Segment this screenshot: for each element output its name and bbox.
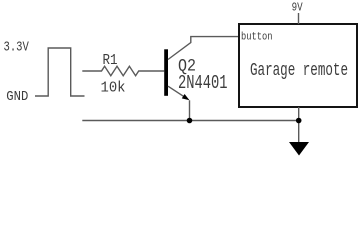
svg-text:R1: R1	[103, 52, 118, 69]
wire 9V stub to box top	[298, 13, 300, 24]
svg-text:GND: GND	[6, 89, 28, 105]
svg-text:10k: 10k	[101, 80, 126, 97]
svg-text:Garage remote: Garage remote	[250, 60, 348, 81]
svg-text:2N4401: 2N4401	[178, 72, 228, 94]
svg-text:button: button	[241, 31, 273, 43]
box Garage remote	[239, 24, 357, 107]
junction dot emitter-rail	[187, 118, 193, 124]
transistor Q2 emitter with arrow	[168, 86, 184, 96]
junction dot rail-ground	[296, 118, 302, 124]
transistor Q2 base bar	[164, 49, 168, 96]
ground symbol	[289, 142, 309, 156]
wire collector to button pin	[168, 37, 239, 60]
wire base with resistor R1 zigzag	[82, 66, 164, 75]
wire pulse waveform input signal	[35, 48, 85, 96]
svg-text:9V: 9V	[292, 1, 303, 14]
svg-text:3.3V: 3.3V	[4, 40, 30, 56]
wire emitter down to rail	[189, 100, 191, 120]
wire ground rail	[82, 120, 299, 122]
wire box bottom down to ground	[298, 107, 300, 143]
